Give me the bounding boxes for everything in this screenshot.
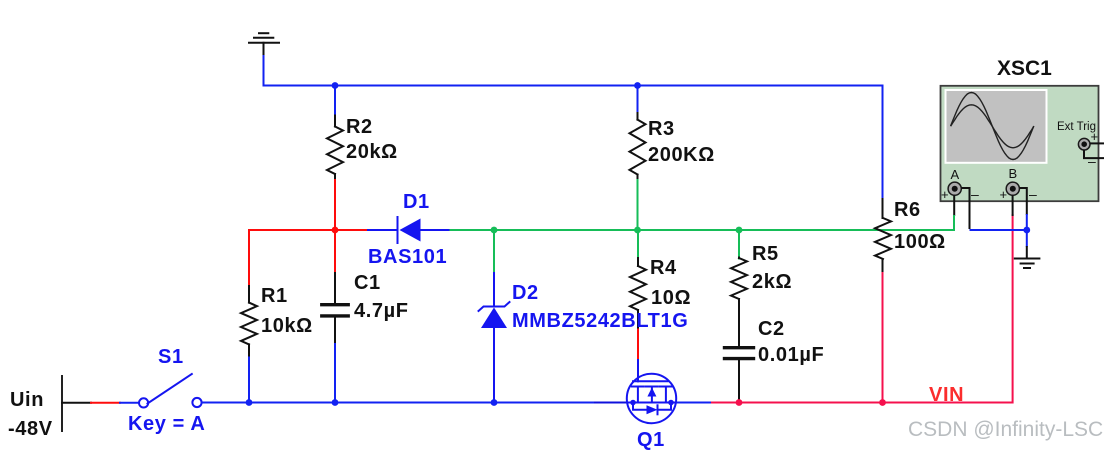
svg-text:D1: D1 bbox=[403, 191, 430, 213]
wire Uin red segment bbox=[91, 402, 120, 404]
svg-text:10kΩ: 10kΩ bbox=[261, 315, 313, 337]
svg-text:+: + bbox=[941, 187, 949, 202]
node top bus / R3 bbox=[634, 82, 641, 89]
capacitor C2 bottom lead bbox=[738, 360, 740, 403]
wire ground stub to top bus (blue) bbox=[263, 56, 265, 86]
zener D2 bottom lead bbox=[493, 328, 495, 403]
diode D1 leads bbox=[368, 229, 398, 231]
diode D1 cathode bar bbox=[397, 217, 399, 243]
instrument XSC1 body bbox=[941, 86, 1099, 201]
svg-text:–: – bbox=[971, 186, 979, 202]
svg-text:XSC1: XSC1 bbox=[997, 57, 1052, 80]
capacitor C1 leads bbox=[334, 273, 336, 303]
resistor R2 bbox=[327, 127, 343, 175]
wire A minus hook bbox=[961, 188, 969, 229]
wire to S1 blue bbox=[120, 402, 139, 404]
wire Uin stub black bbox=[62, 402, 91, 404]
waveform trace A bbox=[951, 93, 1034, 160]
svg-text:–: – bbox=[1088, 153, 1096, 169]
wire Ext Trig plus bbox=[1090, 142, 1104, 144]
resistor R5 bbox=[731, 258, 747, 299]
zener D2 triangle bbox=[481, 308, 507, 329]
svg-text:BAS101: BAS101 bbox=[368, 246, 447, 268]
ground (top-left chassis ground) bbox=[249, 33, 279, 57]
resistor R3 bbox=[630, 120, 646, 175]
node bottom bus / C1 bbox=[332, 399, 339, 406]
node mid bus / R3-R4 bbox=[634, 227, 641, 234]
terminal B bbox=[1006, 182, 1019, 195]
wire scope ground stub bbox=[1026, 246, 1028, 259]
svg-text:4.7µF: 4.7µF bbox=[354, 300, 409, 322]
svg-text:CSDN @Infinity-LSC: CSDN @Infinity-LSC bbox=[908, 418, 1103, 441]
wire R4 top green bbox=[637, 230, 639, 259]
svg-text:B: B bbox=[1009, 166, 1018, 181]
wire R3 top blue bbox=[637, 86, 639, 115]
svg-text:S1: S1 bbox=[158, 346, 184, 368]
wire bottom bus blue bbox=[202, 402, 627, 404]
resistor R5 lead bbox=[738, 257, 740, 260]
node bottom bus / D2 bbox=[491, 399, 498, 406]
wire R1 bottom blue bbox=[248, 358, 250, 403]
wire R4 to Q1 gate red bbox=[637, 330, 639, 361]
wire R5 top green bbox=[738, 230, 740, 259]
resistor R3 leads bbox=[637, 113, 639, 120]
wire bottom bus crimson VIN net bbox=[712, 215, 1013, 403]
node bottom bus / R1 bbox=[246, 399, 253, 406]
transistor Q1 MOSFET bbox=[627, 360, 676, 423]
svg-text:10Ω: 10Ω bbox=[651, 287, 691, 309]
resistor R1 bbox=[241, 303, 257, 345]
resistor R2 leads bbox=[334, 116, 336, 127]
waveform trace B bbox=[951, 105, 1034, 148]
wire D2 top green bbox=[493, 230, 495, 274]
node bottom bus / R6 bbox=[879, 399, 886, 406]
resistor R4 leads bbox=[637, 258, 639, 266]
wire B minus hook bbox=[1019, 188, 1026, 215]
svg-text:Uin: Uin bbox=[10, 389, 44, 411]
wire Q1 through-line blue bbox=[627, 402, 676, 404]
svg-text:R4: R4 bbox=[650, 257, 677, 279]
ground (scope) bbox=[1014, 259, 1041, 269]
wire Uin terminal bar bbox=[61, 376, 63, 431]
wire R2 top blue bbox=[334, 86, 336, 117]
wire R6 bottom crimson bbox=[882, 273, 884, 403]
svg-text:20kΩ: 20kΩ bbox=[346, 141, 398, 163]
svg-text:R5: R5 bbox=[752, 243, 779, 265]
diode D1 triangle bbox=[400, 219, 421, 242]
potentiometer R6 bbox=[875, 218, 891, 259]
svg-text:-48V: -48V bbox=[8, 418, 53, 440]
svg-text:R6: R6 bbox=[894, 199, 921, 221]
node bottom bus / C2 bbox=[736, 399, 743, 406]
wire B minus blue drop bbox=[1026, 214, 1028, 247]
svg-text:R2: R2 bbox=[346, 116, 373, 138]
svg-text:MMBZ5242BLT1G: MMBZ5242BLT1G bbox=[512, 310, 688, 332]
svg-text:D2: D2 bbox=[512, 282, 539, 304]
wire R5 to C2 black bbox=[738, 299, 740, 346]
svg-text:A: A bbox=[951, 167, 960, 182]
node top bus / R2 bbox=[332, 82, 339, 89]
svg-text:200KΩ: 200KΩ bbox=[648, 144, 715, 166]
zener D2 cathode bar bbox=[479, 302, 510, 311]
node mid bus / D2 bbox=[491, 227, 498, 234]
wire Ext Trig minus hook bbox=[1084, 150, 1104, 158]
wire mid bus red segment bbox=[249, 230, 368, 287]
svg-text:2kΩ: 2kΩ bbox=[752, 271, 792, 293]
resistor R4 bbox=[630, 266, 646, 310]
wire A minus to junction blue bbox=[970, 229, 1027, 231]
switch S1 bbox=[139, 374, 202, 408]
capacitor C1 plates bbox=[322, 303, 348, 306]
svg-text:R1: R1 bbox=[261, 285, 288, 307]
svg-text:100Ω: 100Ω bbox=[894, 231, 946, 253]
wire Q1 left lead bbox=[595, 402, 627, 404]
node mid bus / R5 bbox=[736, 227, 743, 234]
resistor R1 leads bbox=[248, 286, 250, 303]
svg-text:R3: R3 bbox=[648, 118, 675, 140]
svg-text:+: + bbox=[1091, 129, 1099, 144]
svg-text:+: + bbox=[1000, 187, 1008, 202]
wire C1 bottom blue bbox=[334, 344, 336, 403]
wire B plus stub bbox=[1012, 195, 1014, 216]
svg-text:C2: C2 bbox=[758, 318, 785, 340]
terminal A bbox=[948, 182, 961, 195]
wire R3 bottom green bbox=[637, 180, 639, 230]
zener D2 top lead bbox=[493, 273, 495, 306]
instrument XSC1 screen bbox=[947, 91, 1046, 162]
wire A plus stub bbox=[953, 195, 955, 216]
wire R2 bottom red bbox=[334, 180, 336, 230]
terminal Ext Trig bbox=[1078, 138, 1090, 150]
node mid bus / R2-C1 bbox=[332, 227, 339, 234]
node scope blue junction bbox=[1023, 227, 1030, 234]
wire mid bus green segment bbox=[451, 229, 955, 231]
svg-text:VIN: VIN bbox=[929, 384, 964, 406]
svg-text:–: – bbox=[1029, 186, 1037, 202]
svg-text:0.01µF: 0.01µF bbox=[758, 344, 824, 366]
instrument XSC1 screen frame bbox=[945, 89, 1048, 164]
wire Q1 right lead blue bbox=[676, 402, 712, 404]
wire top blue bus bbox=[264, 86, 883, 201]
wire C1 top red bbox=[334, 230, 336, 274]
svg-text:C1: C1 bbox=[354, 272, 381, 294]
wire A plus green bbox=[953, 215, 955, 230]
svg-text:Q1: Q1 bbox=[637, 429, 665, 451]
resistor R6 bottom lead bbox=[882, 259, 884, 274]
capacitor C2 plates bbox=[725, 346, 754, 349]
svg-text:Key = A: Key = A bbox=[128, 413, 205, 435]
wire R6 top lead bbox=[882, 199, 884, 218]
